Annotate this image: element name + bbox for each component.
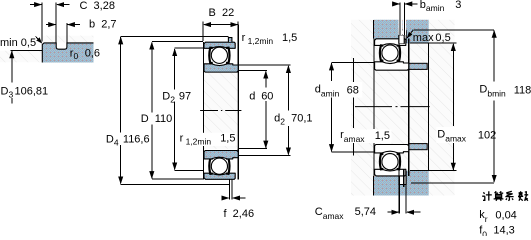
svg-text:116,6: 116,6 [123,134,150,146]
d2 dimension line [287,66,289,73]
f arrows [222,197,229,199]
D_bmin dimension [411,31,531,183]
C dimension extension lines [41,3,43,42]
snap ring mounted (top) [399,35,404,44]
centerline dash-dot middle view [200,110,241,112]
snap ring (bottom, two lines) [228,180,230,200]
svg-text:106,81: 106,81 [15,86,49,98]
ball top (right view) [382,45,398,61]
housing left face outline (top) [373,20,375,39]
D dimension [140,42,203,180]
svg-text:r: r [242,32,246,44]
svg-text:0,04: 0,04 [495,209,516,221]
D4 dimension [105,36,229,184]
svg-text:min 0,5: min 0,5 [0,37,36,49]
B width extension lines [202,22,204,41]
svg-text:1,5: 1,5 [375,130,390,142]
inner ring top (right view) [375,62,409,70]
C dimension arrows [30,4,42,6]
housing snap ring recess notch (bottom) [399,176,406,184]
C_amax arrows [387,211,398,213]
svg-text:97: 97 [179,91,191,103]
b_amin extension lines [398,3,401,35]
svg-text:f 2,46: f 2,46 [224,208,255,220]
svg-text:3: 3 [455,0,461,11]
b dimension extension line right [66,23,68,43]
D_bmin value label [478,83,511,100]
cage bottom (right view) [380,154,384,169]
D_amax dimension [410,43,496,171]
D_amax bottom extension line [410,170,457,172]
D2 top extension line [175,47,203,49]
D_amax dimension line [452,44,454,50]
svg-text:70,1: 70,1 [291,113,312,125]
D4 top extension line [121,35,229,37]
outer ring top [204,42,235,48]
inner ring bottom [204,151,238,159]
svg-text:D: D [141,113,149,125]
svg-text:1,2min: 1,2min [186,136,212,146]
housing flange left face (bottom) [405,171,407,185]
shaft spacer ring (top, blue) [409,63,428,69]
min 0,5 leader arrow [36,36,42,43]
D3 dimension line with up arrow [11,51,13,82]
axis centerline [355,106,430,108]
housing hatch above groove block [43,36,94,43]
snap ring (top) [228,38,232,42]
svg-text:110: 110 [155,113,173,125]
f dimension (snap ring width) [222,198,255,220]
svg-text:102: 102 [478,129,496,141]
d2 bottom extension line [238,155,290,157]
hatch left of block face [0,51,42,63]
shaft shoulder face line [353,58,355,82]
D2 dimension [161,48,204,170]
snap ring mounted (bottom, lines) [398,176,400,213]
D4 bottom extension line [121,183,230,185]
ball bottom (right view) [382,154,398,170]
r_amax label [339,129,392,144]
D2 dimension line [174,49,176,56]
svg-text:C 3,28: C 3,28 [80,0,115,12]
D bottom extension line [152,178,203,180]
d dimension line [265,71,267,78]
D3 groove bottom extension line [11,49,43,51]
D value label [140,113,171,125]
d_amin value label [314,82,363,98]
outer ring block with snap ring groove [42,43,93,63]
svg-text:14,3: 14,3 [493,225,514,236]
d value label [248,88,274,101]
shaft spacer ring (bottom, blue) [409,144,428,150]
svg-text:B 22: B 22 [209,7,235,19]
ball top [211,47,227,63]
svg-text:5,74: 5,74 [355,206,376,218]
inner ring bottom (right view) [375,145,409,153]
bottom half rings [204,151,238,200]
housing bottom (blue) [373,171,428,196]
svg-text:b 2,7: b 2,7 [89,19,117,31]
top half rings [204,38,238,73]
svg-text:118: 118 [514,85,531,97]
housing/shaft right boundary [428,43,430,171]
svg-text:1,2min: 1,2min [248,36,274,46]
svg-text:0,5: 0,5 [435,32,450,44]
bearing inner-ring right face line (right view) [408,39,410,177]
shaft and housing hatch background [351,20,455,196]
d2 dimension [238,65,312,156]
D2 bottom extension line [175,169,204,171]
svg-text:68: 68 [347,84,359,96]
svg-text:r: r [180,132,184,144]
bearing inner-ring right face line [237,25,239,180]
right bearing section (white rings) [374,35,409,214]
cage top [209,48,213,63]
d2 top extension line [238,64,290,66]
D4 dimension line [120,37,122,44]
cage bottom [209,158,213,173]
svg-text:0,6: 0,6 [85,47,100,59]
D_amax top extension line [410,42,457,44]
housing flange left face (top) [405,30,407,43]
outer ring top (right view) [375,39,406,46]
char suan4 [494,191,504,201]
d_amin top extension line [332,61,375,63]
housing top (blue) [373,20,428,44]
D4 value label [105,133,148,145]
cage top (right view) [380,45,384,60]
d bottom extension line [238,148,267,150]
d2 value label [273,111,313,125]
bore region hatch (middle view) [204,73,238,149]
svg-text:1,5: 1,5 [282,32,297,44]
D2 value label [161,90,191,102]
r12min bottom label [178,133,236,146]
ball bottom [211,158,227,174]
svg-text:60: 60 [261,91,273,103]
D dimension line [151,42,153,49]
B dimension line [204,24,210,26]
D_bmin dimension line [493,31,495,38]
d_amin bottom extension line [332,151,375,153]
svg-text:d: d [249,91,255,103]
char ji3 [482,191,492,200]
inner ring top [204,64,238,72]
char xi4 [505,191,513,200]
housing left face outline (bottom) [373,176,375,195]
d_amin dimension line [331,63,333,70]
d dimension [238,71,275,149]
b dimension arrows [46,24,56,26]
b_amin dimension [393,0,462,35]
d top extension line [238,70,267,72]
calculation factors title (Chinese) [482,191,528,201]
bearing left face line (right view) [373,39,375,129]
bearing left face line [202,42,204,180]
D_bmin bottom extension line [411,182,494,184]
max 0,5 leader [407,30,494,44]
b_amin arrows [393,3,400,5]
housing snap ring recess notch (top) [399,30,406,39]
C_amax dimension [315,206,421,221]
char shu4 [518,191,528,201]
outer ring bottom [204,173,235,179]
outer ring bottom (right view) [375,169,406,176]
D top extension line [152,41,203,43]
d_amin dimension [314,62,374,152]
svg-text:max: max [413,32,434,44]
svg-text:1,5: 1,5 [220,132,235,144]
D_amax value label [436,127,470,143]
